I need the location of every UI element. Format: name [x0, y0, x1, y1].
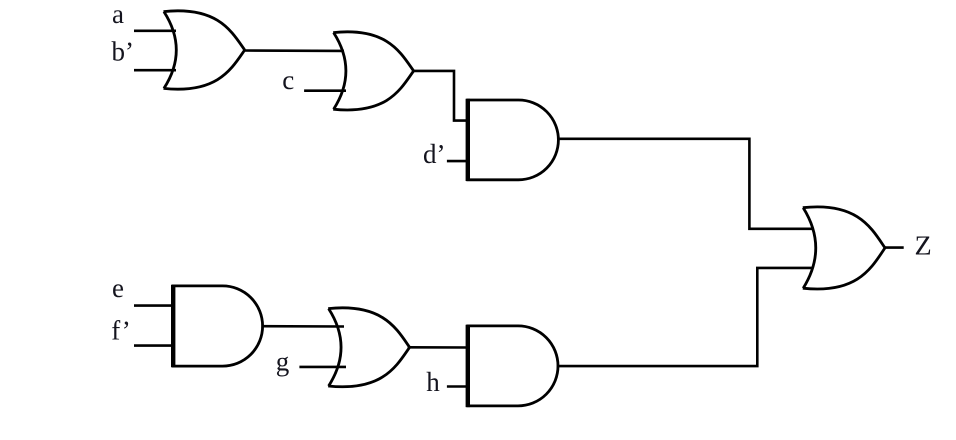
- svg-text:b’: b’: [112, 37, 135, 67]
- wire AND U3 output (right, down, into OR U7 top input): [557, 139, 813, 229]
- AND gate U4 (inputs e, f'): [173, 285, 262, 368]
- svg-text:g: g: [276, 347, 290, 377]
- svg-text:e: e: [112, 273, 124, 303]
- wire input c: [304, 89, 346, 92]
- wire output Z: [884, 246, 904, 249]
- wire input f': [134, 344, 174, 347]
- wire input g: [299, 366, 346, 369]
- wire input e: [134, 304, 174, 307]
- wire OR U5 output to AND U6: [408, 346, 469, 349]
- svg-text:f’: f’: [111, 315, 130, 345]
- wire input h: [447, 385, 468, 388]
- wire OR U2 output (right, down, into AND U3 top input): [413, 71, 469, 121]
- wire input a: [134, 29, 176, 32]
- svg-text:Z: Z: [915, 231, 932, 261]
- svg-text:a: a: [112, 0, 124, 29]
- OR gate U2 (inputs from U1, c): [333, 32, 413, 110]
- wire AND U4 output to OR U5: [261, 325, 344, 328]
- svg-text:d’: d’: [423, 139, 446, 169]
- wire AND U6 output (right, up, into OR U7 bottom input): [557, 268, 813, 366]
- AND gate U3 (inputs from U2, d'): [468, 99, 559, 181]
- wire OR U1 output to OR U2: [244, 49, 344, 52]
- OR gate U1 (inputs a, b'): [164, 11, 245, 89]
- svg-text:h: h: [426, 367, 440, 397]
- OR gate U5 (inputs from U4, g): [328, 308, 409, 387]
- OR gate U7 (final, inputs from U3, U6): [803, 207, 885, 289]
- wire input d': [447, 160, 468, 163]
- wire input b': [134, 69, 176, 72]
- AND gate U6 (inputs from U5, h): [468, 325, 558, 407]
- svg-text:c: c: [282, 65, 294, 95]
